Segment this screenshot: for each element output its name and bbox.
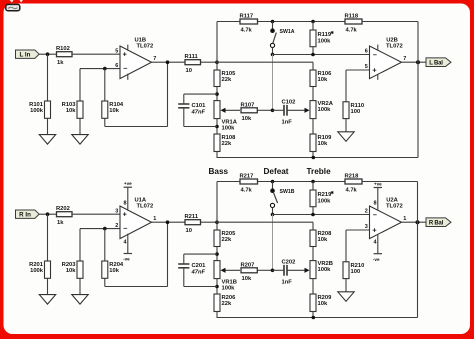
svg-text:–: – (123, 64, 127, 73)
wire top run middle segment (258, 181, 346, 183)
capacitor C101 47nF (178, 94, 217, 126)
node bass cap bottom junction (215, 285, 219, 289)
node wiper row junction (271, 269, 275, 273)
node output feedback junction (416, 60, 420, 64)
wire op-amp U1B output (152, 61, 186, 63)
svg-text:R118: R118 (345, 14, 359, 20)
switch SW1A (270, 22, 295, 55)
wire (216, 119, 218, 134)
wire R103 to ground (79, 118, 81, 134)
svg-text:R218: R218 (345, 174, 360, 180)
svg-text:1: 1 (403, 216, 406, 222)
svg-text:10k: 10k (109, 108, 119, 114)
svg-text:R117: R117 (240, 14, 254, 20)
svg-text:1nF: 1nF (282, 120, 293, 126)
svg-text:R102: R102 (56, 46, 70, 52)
output port tag R Bal (426, 218, 451, 227)
svg-text:10: 10 (186, 228, 192, 234)
node output feedback junction (416, 220, 420, 224)
svg-text:R211: R211 (185, 214, 199, 220)
node bass cap top junction (215, 252, 219, 256)
svg-text:4.7k: 4.7k (241, 27, 253, 33)
resistor R219 100k (310, 182, 335, 215)
resistor R105 22k (214, 70, 236, 87)
svg-text:10: 10 (186, 68, 192, 74)
svg-text:8: 8 (124, 201, 127, 207)
wire R104 to feedback run (104, 118, 106, 126)
svg-text:+: + (123, 49, 128, 58)
wire inverting input row (80, 68, 120, 70)
svg-text:Defeat: Defeat (264, 167, 289, 176)
node bottom run junction (312, 156, 316, 160)
node output junction (166, 220, 170, 224)
resistor R102 1k (56, 46, 72, 66)
svg-text:100k: 100k (222, 286, 236, 292)
wire input node down to R201 (47, 214, 49, 261)
svg-text:8: 8 (374, 201, 377, 207)
svg-text:L Bal: L Bal (429, 61, 443, 67)
node shunt resistor bottom junction (311, 53, 315, 57)
wire (312, 87, 314, 101)
resistor R104 10k (102, 101, 124, 118)
node bottom run junction (312, 316, 316, 320)
wire (216, 87, 218, 101)
resistor R209 10k (310, 294, 332, 312)
wire R210 to ground (345, 279, 347, 292)
resistor R118 4.7k (345, 14, 363, 34)
svg-text:✱: ✱ (331, 30, 335, 35)
svg-text:–: – (123, 224, 127, 233)
potentiometer VR2A 100k (287, 101, 316, 119)
wire R202 to op-amp noninverting input (72, 213, 120, 215)
svg-text:R217: R217 (240, 174, 254, 180)
svg-text:4.7k: 4.7k (346, 27, 358, 33)
svg-text:100: 100 (351, 109, 361, 115)
potentiometer VR1A 100k (214, 101, 240, 119)
node shunt resistor top junction (311, 20, 315, 24)
wire SW1B column down to wiper row (272, 215, 274, 271)
wire input node down to R101 (47, 54, 49, 101)
wire down to R204 (104, 229, 106, 261)
node switch top junction (271, 20, 275, 24)
wire op-amp U2B output to L Bal (402, 61, 427, 63)
svg-text:7: 7 (153, 56, 156, 62)
node inverting input junction (103, 227, 107, 231)
resistor R211 10 (185, 214, 201, 234)
wire SW1B row to op-amp U2A inverting input (273, 214, 370, 216)
wire SW1A row to op-amp U2B inverting input (273, 54, 370, 56)
wire (312, 247, 314, 261)
svg-text:TL072: TL072 (386, 203, 403, 209)
svg-text:10k: 10k (318, 301, 328, 307)
wire output feedback column (417, 182, 419, 318)
svg-text:47nF: 47nF (191, 270, 206, 276)
node SW1A bottom junction (271, 53, 275, 57)
wire down to R104 (104, 69, 106, 101)
svg-text:10k: 10k (318, 141, 328, 147)
node output junction (166, 60, 170, 64)
svg-text:22k: 22k (222, 301, 232, 307)
svg-text:+: + (372, 225, 377, 234)
resistor R117 4.7k (240, 14, 258, 34)
wire down to R203 (79, 229, 81, 261)
resistor R203 10k (62, 261, 83, 278)
svg-text:1k: 1k (57, 220, 64, 226)
svg-text:3: 3 (115, 208, 118, 214)
node bass cap bottom junction (215, 125, 219, 129)
wire inverting input row (80, 228, 120, 230)
svg-text:-ve: -ve (123, 257, 130, 262)
resistor R109 10k (310, 134, 332, 152)
input port tag L In (16, 50, 40, 59)
svg-text:22k: 22k (222, 77, 232, 83)
svg-text:R207: R207 (241, 262, 255, 268)
node inverting input junction (103, 67, 107, 71)
node tone network left junction (215, 220, 219, 224)
wire R204 to feedback run (104, 278, 106, 286)
node shunt resistor bottom junction (311, 213, 315, 217)
capacitor C202 1nF (273, 259, 296, 285)
wire left column top (216, 182, 218, 231)
switch SW1B (270, 182, 295, 215)
svg-text:10k: 10k (318, 77, 328, 83)
capacitor C201 47nF (178, 254, 217, 286)
ground (338, 132, 354, 142)
svg-text:5: 5 (115, 48, 118, 54)
wire R209 to bottom run (312, 312, 314, 318)
svg-text:✱: ✱ (331, 190, 335, 195)
svg-text:2: 2 (365, 209, 368, 215)
wire down to R103 (79, 69, 81, 101)
svg-text:22k: 22k (222, 237, 232, 243)
wire (312, 279, 314, 294)
wire input tag to input node (39, 213, 56, 215)
resistor R107 10k (241, 102, 258, 122)
wire top run middle segment (258, 21, 346, 23)
wire (216, 247, 218, 261)
svg-text:TL072: TL072 (386, 43, 403, 49)
svg-text:6: 6 (115, 63, 118, 69)
svg-text:R111: R111 (185, 54, 199, 60)
wire left column to bottom run (216, 312, 218, 318)
resistor R101 100k (29, 101, 50, 118)
node input junction (46, 52, 50, 56)
resistor R208 10k (310, 230, 332, 247)
svg-text:10k: 10k (109, 268, 119, 274)
svg-text:10k: 10k (318, 237, 328, 243)
svg-text:6: 6 (365, 49, 368, 55)
svg-text:47nF: 47nF (191, 110, 206, 116)
svg-text:R In: R In (19, 212, 31, 219)
svg-text:C101: C101 (192, 103, 207, 109)
wire op-amp U2A noninverting input to R210 (346, 229, 370, 231)
svg-text:100k: 100k (318, 107, 332, 113)
potentiometer VR2B 100k (287, 261, 316, 279)
svg-text:+ve: +ve (374, 181, 382, 186)
wire top run left segment (217, 21, 240, 23)
wire top run right segment (362, 21, 418, 23)
ground (72, 135, 88, 145)
svg-text:C202: C202 (282, 259, 296, 265)
resistor R108 22k (214, 134, 236, 152)
wire wiper row (257, 109, 272, 111)
ground (39, 295, 55, 305)
logo badge (6, 4, 20, 10)
svg-text:R107: R107 (241, 102, 255, 108)
svg-text:4.7k: 4.7k (346, 187, 358, 193)
resistor R218 4.7k (345, 174, 363, 194)
wire wiper row (257, 269, 272, 271)
svg-text:7: 7 (403, 56, 406, 62)
wire input tag to input node (39, 53, 56, 55)
resistor R202 1k (56, 206, 72, 226)
resistor R207 10k (241, 262, 258, 282)
svg-text:10k: 10k (242, 276, 252, 282)
node bass cap top junction (215, 92, 219, 96)
wire R211 to tone network (201, 221, 218, 223)
node tone network left junction (215, 60, 219, 64)
svg-text:5: 5 (365, 64, 368, 70)
svg-text:1k: 1k (57, 60, 64, 66)
resistor R205 22k (214, 230, 236, 247)
svg-text:Treble: Treble (307, 167, 332, 176)
wire R203 to ground (79, 278, 81, 294)
ground (338, 292, 354, 302)
wire R102 to op-amp noninverting input (72, 53, 120, 55)
svg-text:+: + (123, 209, 128, 218)
svg-text:L In: L In (20, 52, 31, 59)
svg-text:–: – (373, 50, 377, 59)
resistor R204 10k (102, 261, 124, 278)
wire R201 to ground (47, 278, 49, 294)
white top-edge marks (10, 0, 24, 3)
op-amp U2B TL072 (365, 38, 407, 80)
output port tag L Bal (426, 58, 451, 67)
svg-text:10k: 10k (66, 268, 76, 274)
wire output feedback column (417, 22, 419, 158)
svg-text:100k: 100k (318, 267, 332, 273)
resistor R110 100 (343, 102, 364, 119)
wire R109 to bottom run (312, 152, 314, 158)
svg-text:SW1A: SW1A (280, 29, 295, 35)
svg-text:100k: 100k (318, 39, 332, 45)
resistor R210 100 (343, 262, 364, 279)
svg-text:–: – (373, 210, 377, 219)
node input junction (46, 212, 50, 216)
wire R101 to ground (47, 118, 49, 134)
wire (312, 119, 314, 134)
svg-text:C102: C102 (282, 99, 296, 105)
resistor R206 22k (214, 294, 236, 312)
wire left column to bottom run (216, 152, 218, 158)
input port tag R In (16, 210, 40, 219)
wire op-amp U2B noninverting input to R110 (346, 69, 370, 71)
resistor R106 10k (310, 70, 332, 87)
wire (216, 279, 218, 294)
wire R111 to tone network (201, 61, 218, 63)
wire op-amp U2A output to R Bal (402, 221, 427, 223)
svg-text:1: 1 (153, 216, 156, 222)
wire output node to R106 (217, 61, 313, 63)
wire top run left segment (217, 181, 240, 183)
svg-text:+ve: +ve (124, 181, 132, 186)
ground (72, 295, 88, 305)
svg-text:+: + (372, 65, 377, 74)
resistor R217 4.7k (240, 174, 258, 194)
svg-text:SW1B: SW1B (280, 189, 295, 195)
svg-text:-ve: -ve (373, 257, 380, 262)
svg-text:100: 100 (351, 269, 361, 275)
svg-text:4.7k: 4.7k (241, 187, 253, 193)
svg-text:R202: R202 (56, 206, 70, 212)
potentiometer VR1B 100k (214, 261, 240, 279)
svg-text:3: 3 (365, 224, 368, 230)
node switch top junction (271, 180, 275, 184)
svg-text:10k: 10k (242, 116, 252, 122)
wire top run right segment (362, 181, 418, 183)
resistor R103 10k (62, 101, 83, 118)
svg-text:100k: 100k (30, 268, 44, 274)
wire SW1A column down to wiper row (272, 55, 274, 111)
wire left column top (216, 22, 218, 71)
svg-text:TL072: TL072 (137, 203, 154, 209)
svg-text:10k: 10k (66, 108, 76, 114)
wire op-amp U1A output (152, 221, 186, 223)
wire output node to R208 (217, 221, 313, 223)
svg-text:100k: 100k (222, 126, 236, 132)
op-amp U1A TL072 (115, 181, 156, 262)
node shunt resistor top junction (311, 180, 315, 184)
svg-text:Bass: Bass (209, 167, 229, 176)
svg-text:2: 2 (115, 223, 118, 229)
node wiper row junction (271, 109, 275, 113)
op-amp U2A TL072 (365, 181, 407, 262)
resistor R201 100k (29, 261, 50, 278)
op-amp U1B TL072 (115, 38, 156, 80)
svg-text:TL072: TL072 (137, 43, 154, 49)
ground (39, 135, 55, 145)
resistor R119 100k (310, 22, 335, 55)
svg-text:100k: 100k (318, 199, 332, 205)
svg-text:R Bal: R Bal (429, 221, 444, 227)
svg-text:22k: 22k (222, 141, 232, 147)
wire R110 to ground (345, 119, 347, 132)
svg-text:C201: C201 (192, 263, 207, 269)
svg-text:1nF: 1nF (282, 280, 293, 286)
node SW1B bottom junction (271, 213, 275, 217)
resistor R111 10 (185, 54, 201, 74)
svg-text:100k: 100k (30, 108, 44, 114)
capacitor C102 1nF (273, 99, 296, 125)
